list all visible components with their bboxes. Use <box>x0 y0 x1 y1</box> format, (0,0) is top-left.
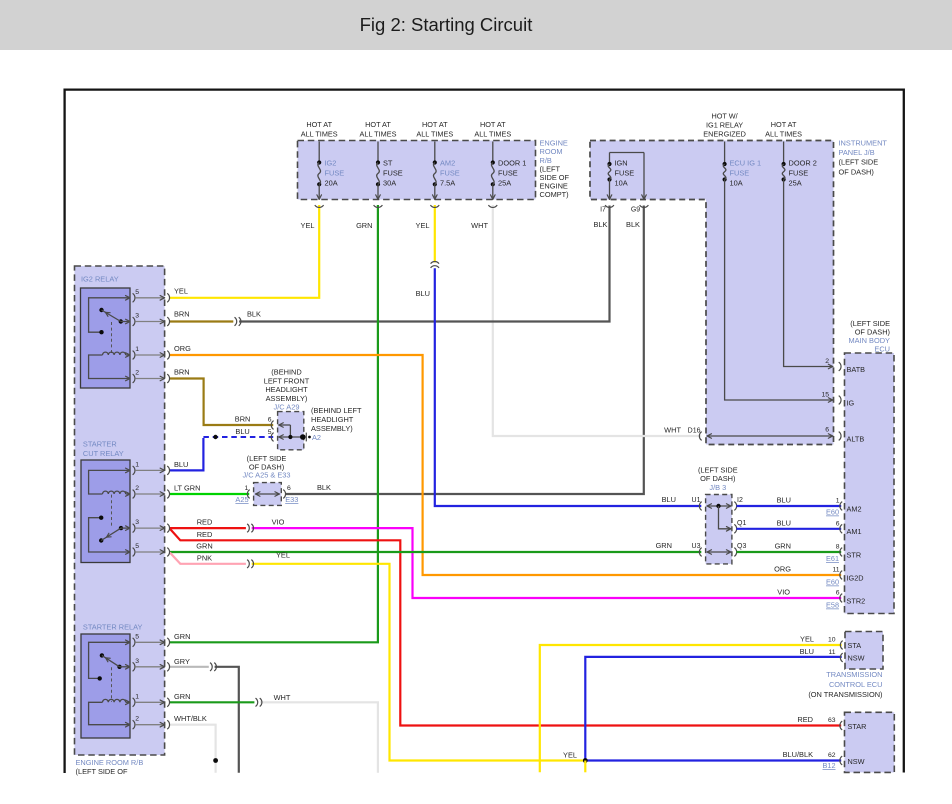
svg-text:ECU: ECU <box>874 345 890 354</box>
svg-text:IG2D: IG2D <box>847 573 864 582</box>
svg-text:2: 2 <box>135 716 139 723</box>
svg-text:GRN: GRN <box>174 692 190 701</box>
svg-text:5: 5 <box>135 289 139 296</box>
svg-text:ALL TIMES: ALL TIMES <box>360 130 397 139</box>
svg-text:Q1: Q1 <box>737 520 746 527</box>
svg-text:RED: RED <box>797 715 813 724</box>
svg-text:FUSE: FUSE <box>383 169 403 178</box>
svg-text:ST: ST <box>383 159 393 168</box>
svg-text:B12: B12 <box>823 761 836 770</box>
svg-text:ECU IG 1: ECU IG 1 <box>730 159 762 168</box>
svg-text:E60: E60 <box>826 508 839 517</box>
svg-text:1: 1 <box>135 346 139 353</box>
svg-text:RED: RED <box>197 518 213 527</box>
svg-text:FUSE: FUSE <box>498 169 518 178</box>
svg-text:HEADLIGHT: HEADLIGHT <box>265 385 308 394</box>
svg-text:6: 6 <box>836 590 840 597</box>
svg-text:STARTER: STARTER <box>83 440 117 449</box>
svg-text:FUSE: FUSE <box>440 169 460 178</box>
svg-text:STR2: STR2 <box>847 596 866 605</box>
svg-text:E33: E33 <box>285 495 298 504</box>
svg-text:GRN: GRN <box>174 632 190 641</box>
svg-text:HOT AT: HOT AT <box>306 120 332 129</box>
svg-text:WHT: WHT <box>664 426 681 435</box>
svg-text:E60: E60 <box>826 578 839 587</box>
svg-text:2: 2 <box>135 485 139 492</box>
svg-text:BLK: BLK <box>317 483 331 492</box>
svg-text:FUSE: FUSE <box>789 169 809 178</box>
svg-text:IGN: IGN <box>615 159 628 168</box>
svg-text:6: 6 <box>268 417 272 424</box>
svg-text:BLU: BLU <box>662 495 676 504</box>
svg-text:BLU: BLU <box>416 289 430 298</box>
svg-text:CUT RELAY: CUT RELAY <box>83 449 124 458</box>
svg-text:ORG: ORG <box>174 344 191 353</box>
svg-text:NSW: NSW <box>848 654 865 663</box>
svg-text:63: 63 <box>828 717 836 724</box>
svg-text:3: 3 <box>135 313 139 320</box>
svg-text:BLK: BLK <box>247 310 261 319</box>
svg-text:Fig 2: Starting Circuit: Fig 2: Starting Circuit <box>360 14 533 35</box>
svg-text:GRN: GRN <box>656 541 672 550</box>
svg-text:PANEL J/B: PANEL J/B <box>839 148 875 157</box>
svg-text:6: 6 <box>287 485 291 492</box>
svg-text:BLU/BLK: BLU/BLK <box>783 750 813 759</box>
svg-text:(BEHIND: (BEHIND <box>271 368 301 377</box>
svg-text:ALL TIMES: ALL TIMES <box>416 130 453 139</box>
svg-text:BLU: BLU <box>235 427 249 436</box>
svg-text:BRN: BRN <box>235 415 251 424</box>
svg-text:U3: U3 <box>692 543 701 550</box>
svg-text:(LEFT SIDE: (LEFT SIDE <box>839 158 879 167</box>
svg-text:8: 8 <box>836 543 840 550</box>
svg-text:COMPT): COMPT) <box>540 190 569 199</box>
svg-text:HOT AT: HOT AT <box>771 120 797 129</box>
svg-text:E61: E61 <box>826 554 839 563</box>
svg-text:5: 5 <box>135 633 139 640</box>
svg-text:AM2: AM2 <box>440 159 455 168</box>
svg-text:FUSE: FUSE <box>615 169 635 178</box>
svg-text:FUSE: FUSE <box>730 169 750 178</box>
svg-text:ENGINE ROOM R/B: ENGINE ROOM R/B <box>76 758 144 767</box>
svg-text:BATB: BATB <box>847 365 866 374</box>
svg-text:ALL TIMES: ALL TIMES <box>474 130 511 139</box>
svg-text:YEL: YEL <box>800 635 814 644</box>
svg-text:ENERGIZED: ENERGIZED <box>703 130 746 139</box>
svg-text:AM2: AM2 <box>847 504 862 513</box>
svg-text:STAR: STAR <box>848 722 867 731</box>
svg-text:20A: 20A <box>325 179 338 188</box>
svg-text:2: 2 <box>135 370 139 377</box>
svg-text:11: 11 <box>828 649 835 656</box>
svg-text:IG: IG <box>847 398 855 407</box>
svg-text:25A: 25A <box>498 179 511 188</box>
svg-text:IG2 RELAY: IG2 RELAY <box>81 275 119 284</box>
svg-text:YEL: YEL <box>174 287 188 296</box>
svg-text:NSW: NSW <box>848 757 865 766</box>
svg-text:1: 1 <box>135 461 139 468</box>
svg-text:1: 1 <box>135 693 139 700</box>
svg-text:BLU: BLU <box>174 460 188 469</box>
svg-text:BLU: BLU <box>777 518 791 527</box>
svg-text:10A: 10A <box>730 179 743 188</box>
svg-text:(ON TRANSMISSION): (ON TRANSMISSION) <box>808 690 882 699</box>
svg-text:PNK: PNK <box>197 553 212 562</box>
svg-text:INSTRUMENT: INSTRUMENT <box>839 139 888 148</box>
svg-text:YEL: YEL <box>563 751 577 760</box>
svg-text:FUSE: FUSE <box>325 169 345 178</box>
svg-text:GRN: GRN <box>775 541 791 550</box>
svg-text:I7: I7 <box>600 207 606 214</box>
svg-text:DOOR 2: DOOR 2 <box>789 159 817 168</box>
svg-text:(LEFT SIDE OF: (LEFT SIDE OF <box>76 767 129 776</box>
svg-text:BLU: BLU <box>777 496 791 505</box>
svg-text:25A: 25A <box>789 179 802 188</box>
svg-text:OF DASH): OF DASH) <box>700 474 735 483</box>
svg-text:U1: U1 <box>692 497 701 504</box>
svg-text:ALL TIMES: ALL TIMES <box>301 130 338 139</box>
svg-text:YEL: YEL <box>301 221 315 230</box>
svg-text:YEL: YEL <box>416 221 430 230</box>
svg-text:RED: RED <box>197 530 213 539</box>
svg-text:WHT: WHT <box>471 221 488 230</box>
svg-text:ALTB: ALTB <box>847 434 865 443</box>
svg-text:LEFT FRONT: LEFT FRONT <box>264 376 310 385</box>
svg-text:15: 15 <box>821 392 829 399</box>
svg-text:10: 10 <box>828 637 836 644</box>
svg-text:STR: STR <box>847 550 862 559</box>
svg-text:BLU: BLU <box>800 647 814 656</box>
svg-text:DOOR 1: DOOR 1 <box>498 159 526 168</box>
svg-text:6: 6 <box>836 520 840 527</box>
svg-text:VIO: VIO <box>777 588 790 597</box>
svg-text:3: 3 <box>135 658 139 665</box>
svg-text:G9: G9 <box>631 207 640 214</box>
svg-text:J/C A25 & E33: J/C A25 & E33 <box>242 471 290 480</box>
svg-text:62: 62 <box>828 752 836 759</box>
svg-text:ORG: ORG <box>774 565 791 574</box>
svg-text:A25: A25 <box>235 495 248 504</box>
svg-text:BRN: BRN <box>174 310 190 319</box>
svg-text:IG2: IG2 <box>325 159 337 168</box>
svg-text:STA: STA <box>848 641 862 650</box>
svg-text:HOT AT: HOT AT <box>422 120 448 129</box>
svg-text:(LEFT SIDE: (LEFT SIDE <box>698 465 738 474</box>
svg-text:OF DASH): OF DASH) <box>839 167 874 176</box>
svg-text:BLK: BLK <box>594 220 608 229</box>
svg-text:A2: A2 <box>312 433 321 442</box>
svg-text:LT GRN: LT GRN <box>174 484 200 493</box>
svg-text:1: 1 <box>245 485 249 492</box>
svg-text:2: 2 <box>825 358 829 365</box>
svg-text:BLK: BLK <box>626 220 640 229</box>
svg-text:HOT W/: HOT W/ <box>711 112 738 121</box>
svg-text:1: 1 <box>836 498 840 505</box>
svg-text:D16: D16 <box>688 428 701 435</box>
svg-text:AM1: AM1 <box>847 527 862 536</box>
svg-text:E58: E58 <box>826 601 839 610</box>
svg-text:Q3: Q3 <box>737 543 746 550</box>
svg-text:ALL TIMES: ALL TIMES <box>765 130 802 139</box>
svg-text:5: 5 <box>135 543 139 550</box>
svg-text:5: 5 <box>268 429 272 436</box>
svg-text:GRY: GRY <box>174 657 190 666</box>
svg-text:WHT: WHT <box>274 693 291 702</box>
svg-text:STARTER RELAY: STARTER RELAY <box>83 623 143 632</box>
svg-text:CONTROL ECU: CONTROL ECU <box>829 680 883 689</box>
svg-text:ASSEMBLY): ASSEMBLY) <box>311 424 353 433</box>
svg-text:TRANSMISSION: TRANSMISSION <box>826 670 882 679</box>
svg-text:(BEHIND LEFT: (BEHIND LEFT <box>311 406 362 415</box>
svg-text:7.5A: 7.5A <box>440 179 455 188</box>
svg-text:J/C A29: J/C A29 <box>274 402 300 411</box>
svg-text:HOT AT: HOT AT <box>365 120 391 129</box>
svg-text:GRN: GRN <box>196 542 212 551</box>
svg-text:HOT AT: HOT AT <box>480 120 506 129</box>
svg-text:VIO: VIO <box>272 518 285 527</box>
svg-text:3: 3 <box>135 519 139 526</box>
svg-text:GRN: GRN <box>356 221 372 230</box>
svg-text:BRN: BRN <box>174 368 190 377</box>
svg-text:J/B 3: J/B 3 <box>709 483 726 492</box>
svg-text:30A: 30A <box>383 179 396 188</box>
svg-text:11: 11 <box>832 567 839 574</box>
svg-text:I2: I2 <box>737 497 743 504</box>
svg-text:IG1 RELAY: IG1 RELAY <box>706 121 743 130</box>
svg-text:6: 6 <box>825 427 829 434</box>
svg-text:WHT/BLK: WHT/BLK <box>174 714 207 723</box>
svg-text:HEADLIGHT: HEADLIGHT <box>311 415 354 424</box>
svg-text:YEL: YEL <box>276 551 290 560</box>
svg-text:10A: 10A <box>615 179 628 188</box>
